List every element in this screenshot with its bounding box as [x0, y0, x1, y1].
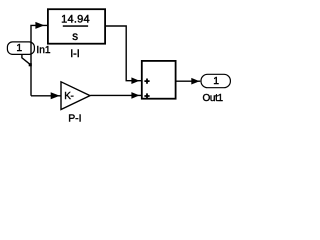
svg-text:14.94: 14.94	[61, 13, 90, 25]
svg-text:K-: K-	[64, 91, 73, 102]
svg-text:P-I: P-I	[68, 114, 81, 125]
svg-text:1: 1	[16, 43, 22, 54]
svg-text:In1: In1	[36, 45, 50, 56]
svg-text:s: s	[72, 30, 78, 43]
svg-text:1: 1	[213, 76, 219, 87]
svg-text:Out1: Out1	[202, 93, 223, 104]
svg-text:I-I: I-I	[70, 48, 80, 60]
